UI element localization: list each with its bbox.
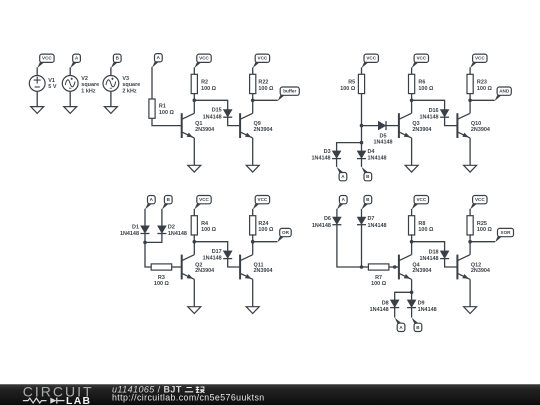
svg-text:100 Ω: 100 Ω: [418, 86, 434, 92]
svg-text:100 Ω: 100 Ω: [154, 281, 170, 287]
transistor Q3 2N3904: [399, 113, 412, 138]
wire VCC flag to R23: [469, 67, 471, 74]
net flag VCC (R25): [470, 196, 487, 210]
svg-text:VCC: VCC: [475, 197, 485, 202]
wire Q2 emitter to ground: [193, 279, 195, 306]
svg-text:2 kHz: 2 kHz: [122, 89, 136, 95]
ground below Q1: [188, 165, 201, 172]
wire D4 to B flag: [361, 159, 363, 167]
resistor R8 100: [409, 216, 415, 235]
svg-text:100 Ω: 100 Ω: [418, 227, 434, 233]
wire B flag to D2: [161, 209, 163, 226]
label D4 1N4148: [368, 149, 387, 161]
label D1 1N4148: [120, 224, 139, 236]
node Q12 collector junction: [468, 240, 472, 244]
diode D4 1N4148: [357, 151, 366, 159]
wire node to D18: [412, 242, 445, 251]
wire Q12 emitter to ground: [469, 279, 471, 306]
resistor R2 100: [191, 74, 197, 93]
svg-text:VCC: VCC: [199, 56, 209, 61]
svg-text:R6: R6: [418, 80, 425, 86]
diode D5 1N4148: [378, 121, 386, 130]
label Q11 2N3904: [254, 262, 273, 274]
svg-text:2N3904: 2N3904: [195, 268, 214, 274]
wire D1 to junction: [144, 234, 146, 243]
svg-text:D3: D3: [324, 149, 331, 155]
svg-text:R24: R24: [258, 221, 268, 227]
wire D8 to A flag: [394, 308, 396, 318]
wire branch to D3: [337, 143, 362, 151]
svg-text:D1: D1: [132, 224, 139, 230]
wire V1 to ground: [36, 91, 38, 106]
wire D17 to Q11 base: [228, 259, 240, 267]
svg-text:100 Ω: 100 Ω: [258, 86, 274, 92]
svg-text:R1: R1: [159, 104, 166, 110]
wire Q3 emitter to ground: [411, 138, 413, 165]
net flag XOR output: [495, 228, 514, 242]
label D16 1N4148: [420, 108, 439, 120]
label R25 100: [477, 221, 493, 233]
wire VCC flag to R2: [193, 67, 195, 74]
diode D9 1N4148: [407, 300, 416, 308]
wire node to XOR flag: [470, 241, 495, 243]
transistor Q11 2N3904: [240, 255, 253, 280]
transistor Q4 2N3904: [399, 255, 412, 280]
svg-text:V3: V3: [122, 76, 129, 82]
transistor Q2 2N3904: [182, 255, 195, 280]
label Q2 2N3904: [195, 262, 214, 274]
svg-text:2N3904: 2N3904: [412, 127, 431, 133]
wire node to buffer flag: [253, 99, 278, 101]
svg-text:100 Ω: 100 Ω: [477, 227, 493, 233]
footer CJK characters 二段: [185, 386, 205, 392]
footer bar: [0, 384, 540, 405]
wire node to D16: [412, 100, 445, 109]
resistor R5 100: [358, 74, 364, 93]
svg-text:1N4148: 1N4148: [420, 115, 439, 121]
svg-text:LAB: LAB: [66, 396, 91, 405]
svg-text:V1: V1: [48, 78, 55, 84]
wire node to AND flag: [470, 99, 495, 101]
svg-text:D2: D2: [168, 224, 175, 230]
svg-text:square: square: [81, 82, 99, 88]
wire A flag to D6: [336, 209, 338, 217]
svg-text:100 Ω: 100 Ω: [201, 86, 217, 92]
net flag B (OR input): [162, 196, 172, 210]
svg-text:VCC: VCC: [416, 56, 426, 61]
label Q9 2N3904: [254, 121, 273, 133]
svg-text:VCC: VCC: [475, 56, 485, 61]
voltage source V1 5V DC: [29, 76, 45, 92]
wire emitter junction to D8: [395, 292, 412, 300]
svg-text:1N4148: 1N4148: [203, 256, 222, 262]
label D18 1N4148: [420, 250, 439, 262]
net flag OR output: [277, 228, 291, 242]
svg-text:1N4148: 1N4148: [420, 256, 439, 262]
transistor Q1 2N3904: [182, 113, 195, 138]
label R2 100: [201, 80, 217, 92]
net flag B (XOR input): [362, 196, 372, 210]
wire VCC flag to R25: [469, 209, 471, 216]
label D2 1N4148: [168, 224, 187, 236]
resistor R7 100: [368, 264, 389, 270]
net flag A (XOR input): [337, 196, 347, 210]
diode D3 1N4148: [332, 151, 341, 159]
label R1 100: [159, 104, 175, 116]
diode D15 1N4148: [223, 110, 232, 118]
wire Q3 collector: [411, 100, 413, 113]
net flag VCC (V1): [37, 54, 54, 68]
label R4 100: [201, 221, 217, 233]
label R24 100: [258, 221, 274, 233]
net flag A (below D8): [395, 318, 405, 332]
node Q2 collector junction: [193, 240, 197, 244]
svg-text:R22: R22: [258, 80, 268, 86]
net flag VCC (R4): [194, 196, 211, 210]
label R23 100: [477, 80, 493, 92]
diode D6 1N4148: [332, 217, 341, 225]
svg-text:2N3904: 2N3904: [471, 127, 490, 133]
net flag A (below D3): [337, 167, 347, 181]
svg-text:1N4148: 1N4148: [370, 307, 389, 313]
label Q1 2N3904: [195, 121, 214, 133]
wire Q9 emitter to ground: [252, 138, 254, 165]
resistor R6 100: [409, 74, 415, 93]
svg-text:100 Ω: 100 Ω: [159, 110, 175, 116]
svg-text:VCC: VCC: [416, 197, 426, 202]
wire Q11 emitter to ground: [252, 279, 254, 306]
wire R24 to collector node: [252, 234, 254, 241]
svg-text:square: square: [122, 82, 140, 88]
CircuitLab logo resistor-diode squiggle: [23, 398, 65, 404]
wire D2 to junction: [145, 234, 162, 243]
svg-text:100 Ω: 100 Ω: [371, 281, 387, 287]
svg-text:D15: D15: [212, 108, 222, 114]
wire R2 to collector node: [193, 94, 195, 101]
ground below Q2: [188, 307, 201, 314]
net flag B (V3): [111, 54, 121, 68]
wire R5 to diode node: [361, 94, 363, 126]
svg-text:V2: V2: [81, 76, 88, 82]
voltage source V2 square 1kHz: [62, 76, 78, 92]
wire node down to D3 D4 branch: [361, 126, 363, 143]
net flag AND output: [495, 87, 512, 101]
net flag VCC (R22): [253, 54, 270, 68]
diode D16 1N4148: [440, 110, 449, 118]
label Q10 2N3904: [471, 121, 490, 133]
label Q12 2N3904: [471, 262, 490, 274]
label R3 100: [154, 275, 170, 287]
wire V2 flag to source: [69, 67, 71, 75]
diode D8 1N4148: [390, 300, 399, 308]
node Q10 collector junction: [468, 99, 472, 103]
net flag VCC (R2): [194, 54, 211, 68]
svg-text:1N4148: 1N4148: [312, 156, 331, 162]
svg-text:1N4148: 1N4148: [368, 223, 387, 229]
resistor R3 100: [151, 264, 172, 270]
label R7 100: [371, 275, 387, 287]
wire V3 flag to source: [110, 67, 112, 75]
net flag VCC (R8): [412, 196, 429, 210]
svg-text:R23: R23: [477, 80, 487, 86]
wire Q1 emitter to ground: [193, 138, 195, 165]
net flag B (below D4): [362, 167, 372, 181]
ground below Q11: [246, 307, 259, 314]
svg-text:R8: R8: [418, 221, 425, 227]
svg-text:R7: R7: [375, 275, 382, 281]
svg-text:5 V: 5 V: [48, 84, 57, 90]
wire Q12 collector: [469, 242, 471, 255]
wire VCC flag to R8: [411, 209, 413, 216]
node D1/D2 junction: [143, 241, 147, 245]
svg-text:2N3904: 2N3904: [254, 268, 273, 274]
wire A flag to D1: [144, 209, 146, 226]
label V2 square 1 kHz: [81, 76, 99, 95]
wire VCC flag to R6: [411, 67, 413, 74]
node Q4 collector junction: [410, 240, 414, 244]
wire R8 to collector node: [411, 234, 413, 241]
resistor R4 100: [191, 216, 197, 235]
wire D7 to junction: [361, 225, 363, 267]
net flag A (V2): [70, 54, 80, 68]
wire Q1 collector: [193, 100, 195, 113]
label D6 1N4148: [312, 216, 331, 229]
node Q1 collector junction: [193, 99, 197, 103]
svg-text:VCC: VCC: [366, 56, 376, 61]
svg-text:buffer: buffer: [283, 89, 296, 94]
svg-text:R4: R4: [201, 221, 208, 227]
svg-text:1N4148: 1N4148: [203, 114, 222, 120]
resistor R24 100: [250, 216, 256, 235]
resistor R23 100: [467, 74, 473, 93]
wire R1 to Q1 base: [152, 118, 182, 125]
svg-text:VCC: VCC: [258, 56, 268, 61]
wire D5 to Q3 base: [386, 125, 399, 127]
wire V1 flag to source: [36, 67, 38, 75]
wire node to D5: [362, 125, 379, 127]
wire Q2 collector: [193, 242, 195, 255]
svg-text:R25: R25: [477, 221, 487, 227]
wire Q4 emitter to D8/D9: [411, 279, 413, 292]
svg-text:100 Ω: 100 Ω: [477, 86, 493, 92]
svg-text:1N4148: 1N4148: [168, 231, 187, 237]
label R8 100: [418, 221, 434, 233]
wire D16 to Q10 base: [445, 117, 458, 125]
ground below Q3: [405, 165, 418, 172]
svg-text:VCC: VCC: [42, 56, 52, 61]
label D7 1N4148: [368, 216, 387, 229]
label D17 1N4148: [203, 249, 222, 262]
node Q11 collector junction: [251, 240, 255, 244]
svg-text:2N3904: 2N3904: [254, 127, 273, 133]
svg-text:R5: R5: [348, 80, 355, 86]
diode D18 1N4148: [440, 251, 449, 259]
label Q3 2N3904: [412, 121, 431, 133]
wire B flag to D7: [361, 209, 363, 217]
label D5 1N4148: [373, 134, 392, 146]
svg-text:D7: D7: [368, 216, 375, 222]
wire Q9 collector: [252, 100, 254, 113]
wire R22 to collector node: [252, 94, 254, 101]
wire node to OR flag: [253, 241, 278, 243]
wire V2 to ground: [69, 91, 71, 106]
label R6 100: [418, 80, 434, 92]
svg-text:D6: D6: [324, 216, 331, 222]
ground below Q12: [464, 307, 477, 314]
wire node to D15: [194, 100, 227, 109]
label D9 1N4148: [418, 300, 437, 312]
svg-text:R2: R2: [201, 80, 208, 86]
svg-text:2N3904: 2N3904: [195, 127, 214, 133]
svg-text:D18: D18: [429, 250, 439, 256]
svg-text:1N4148: 1N4148: [373, 139, 392, 145]
wire R4 to collector node: [193, 234, 195, 241]
node R5 / D5 junction: [360, 124, 364, 128]
wire D6 to junction: [337, 225, 362, 267]
wire D3 to A flag: [336, 159, 338, 167]
diode D1 1N4148: [141, 226, 150, 234]
svg-text:XOR: XOR: [501, 230, 512, 235]
svg-text:D4: D4: [368, 149, 375, 155]
label R5 100: [340, 80, 356, 92]
diode D17 1N4148: [223, 251, 232, 259]
net flag VCC (R23): [470, 54, 487, 68]
ground below V3: [104, 107, 117, 114]
net flag A (R1 input): [152, 54, 162, 68]
svg-text:100 Ω: 100 Ω: [201, 227, 217, 233]
wire junction to R3: [145, 242, 151, 267]
diode D7 1N4148: [357, 217, 366, 225]
wire branch to D4: [361, 143, 363, 151]
wire VCC flag to R22: [252, 67, 254, 74]
wire D15 to Q9 base: [228, 117, 240, 125]
svg-text:OR: OR: [282, 230, 290, 235]
svg-text:R3: R3: [158, 275, 165, 281]
wire emitter junction to D9: [411, 292, 413, 300]
node Q3 collector junction: [410, 99, 414, 103]
label D15 1N4148: [203, 108, 222, 121]
svg-text:1N4148: 1N4148: [120, 231, 139, 237]
wire R3 to Q2 base: [172, 266, 182, 268]
net flag VCC (R6): [412, 54, 429, 68]
net flag A (OR input): [145, 196, 155, 210]
wire A flag to R1: [151, 67, 153, 99]
net flag VCC (R5): [362, 54, 379, 68]
svg-text:1 kHz: 1 kHz: [81, 89, 95, 95]
wire VCC flag to R24: [252, 209, 254, 216]
ground below Q9: [246, 165, 259, 172]
voltage source V3 square 2kHz: [103, 76, 119, 92]
wire R23 to collector node: [469, 94, 471, 101]
svg-text:2N3904: 2N3904: [471, 268, 490, 274]
wire VCC flag to R4: [193, 209, 195, 216]
svg-text:1N4148: 1N4148: [418, 307, 437, 313]
svg-text:D9: D9: [418, 300, 425, 306]
svg-text:2N3904: 2N3904: [412, 268, 431, 274]
svg-text:VCC: VCC: [199, 197, 209, 202]
resistor R1 100: [149, 99, 155, 118]
wire R7 to Q4 base: [389, 266, 399, 268]
wire R25 to collector node: [469, 234, 471, 241]
wire D18 to Q12 base: [445, 259, 458, 267]
svg-text:D8: D8: [382, 300, 389, 306]
svg-text:VCC: VCC: [258, 197, 268, 202]
ground below Q10: [464, 165, 477, 172]
node Q4 emitter junction: [410, 291, 414, 295]
ground below V2: [64, 107, 77, 114]
transistor Q10 2N3904: [457, 113, 470, 138]
svg-text:http://circuitlab.com/cn5e576u: http://circuitlab.com/cn5e576uuktsn: [112, 393, 265, 403]
svg-text:D16: D16: [429, 108, 439, 114]
node D6/D7 junction: [360, 265, 364, 269]
wire Q11 collector: [252, 242, 254, 255]
svg-text:1N4148: 1N4148: [312, 223, 331, 229]
net flag VCC (R24): [253, 196, 270, 210]
net flag B (below D9): [412, 318, 422, 332]
net flag buffer output: [278, 87, 300, 101]
svg-text:100 Ω: 100 Ω: [258, 227, 274, 233]
label D3 1N4148: [312, 149, 331, 161]
resistor R25 100: [467, 216, 473, 235]
svg-text:AND: AND: [499, 89, 510, 94]
wire junction to R7: [362, 266, 369, 268]
wire node to D17: [194, 242, 227, 251]
wire V3 to ground: [110, 91, 112, 106]
node R7/base junction: [393, 265, 397, 269]
wire R6 to collector node: [411, 94, 413, 101]
transistor Q9 2N3904: [240, 113, 253, 138]
svg-text:100 Ω: 100 Ω: [340, 86, 356, 92]
wire Q10 emitter to ground: [469, 138, 471, 165]
transistor Q12 2N3904: [457, 255, 470, 280]
label Q4 2N3904: [412, 262, 431, 274]
wire Q4 collector: [411, 242, 413, 255]
label R22 100: [258, 80, 274, 92]
label V1 5 V: [48, 78, 57, 90]
diode D2 1N4148: [157, 226, 166, 234]
ground below V1: [31, 107, 44, 114]
svg-text:D17: D17: [212, 249, 222, 255]
svg-text:1N4148: 1N4148: [368, 156, 387, 162]
label V3 square 2 kHz: [122, 76, 140, 95]
resistor R22 100: [250, 74, 256, 93]
label D8 1N4148: [370, 300, 389, 312]
node D3/D4 branch junction: [360, 141, 364, 145]
wire VCC flag to R5: [361, 67, 363, 74]
wire D9 to B flag: [411, 308, 413, 318]
node Q9 collector junction: [251, 99, 255, 103]
wire Q10 collector: [469, 100, 471, 113]
